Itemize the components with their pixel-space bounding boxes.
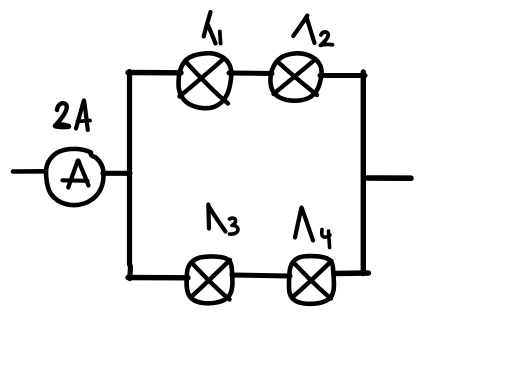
ammeter A1 circle bbox=[46, 149, 104, 205]
label lamp4 subscript 4 bbox=[322, 230, 330, 238]
lamp L4 body bbox=[289, 256, 334, 304]
lamp L2 circle bbox=[270, 53, 321, 100]
lamp L1 cross bbox=[187, 63, 229, 104]
lamp L3 cross bbox=[192, 263, 230, 300]
label lamp2 subscript 2 bbox=[321, 32, 333, 45]
lamp L2 cross bbox=[278, 62, 317, 95]
wire left terminal bbox=[13, 169, 46, 174]
wire bottom branch: lamp L3 to lamp L4 bbox=[232, 275, 290, 276]
label 2A value bbox=[56, 103, 69, 126]
wire top branch: lamp L2 to right bus bbox=[320, 73, 365, 78]
label lamp2 lambda bbox=[293, 16, 307, 37]
wire right terminal stub bbox=[365, 175, 411, 181]
label lamp4 lambda bbox=[295, 208, 302, 238]
wire ammeter to left bus bbox=[103, 171, 130, 176]
wire right bus vertical bbox=[361, 72, 366, 274]
label lamp3 lambda bbox=[206, 205, 211, 229]
wire bottom branch: left bus to lamp L3 bbox=[128, 275, 188, 281]
lamp L1 circle bbox=[179, 53, 232, 108]
wire top branch: bus to lamp L1 bbox=[128, 70, 181, 76]
label lamp1 lambda bbox=[204, 12, 211, 37]
lamp L3 body bbox=[187, 256, 233, 303]
wire top branch: lamp L1 to lamp L2 bbox=[229, 71, 272, 77]
label lamp1 subscript 1 bbox=[218, 32, 223, 44]
ammeter letter A bbox=[68, 161, 78, 188]
wire bottom branch: lamp L4 to right bus bbox=[334, 270, 369, 276]
wire left bus vertical bbox=[130, 72, 131, 279]
label lamp3 subscript 3 bbox=[230, 218, 239, 234]
lamp L4 cross bbox=[293, 262, 331, 299]
